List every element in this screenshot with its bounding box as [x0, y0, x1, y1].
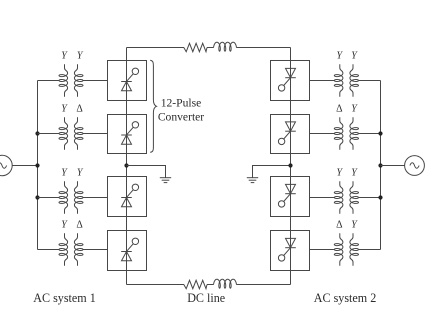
wire left bus to T2 primary [38, 133, 60, 135]
thyristor valve V3 [121, 184, 138, 207]
transformer T8 primary winding [350, 233, 359, 265]
wire top DC right [236, 47, 290, 49]
svg-text:Y: Y [337, 51, 344, 62]
wire valve V7 to T7 secondary [310, 197, 335, 199]
junction right bus / T7 [378, 195, 382, 199]
caption DC line [187, 291, 225, 305]
transformer T5 primary winding [350, 64, 359, 96]
wire left bus to T4 primary [38, 249, 60, 251]
transformer T7 primary winding [350, 181, 359, 213]
transformer T2 secondary winding [74, 117, 83, 149]
wire right bus to G2 [381, 165, 405, 167]
thyristor valve V6 [278, 122, 295, 145]
label T2 primary connection Y [61, 104, 68, 115]
wire top DC mid [207, 47, 214, 49]
smoothing reactor top [214, 42, 237, 51]
junction left bus / T3 [35, 195, 39, 199]
transformer T7 secondary winding [334, 181, 343, 213]
label T3 primary connection Y [61, 168, 68, 179]
wire T6 primary to right bus [359, 133, 381, 135]
right converter DC wire [290, 48, 292, 285]
label T7 secondary connection Y [337, 168, 344, 179]
AC source G1 (AC system 1) [0, 155, 12, 175]
label T1 primary connection Y [61, 51, 68, 62]
caption AC system 1 [33, 291, 96, 305]
wire bottom DC right [236, 284, 290, 286]
wire T2 secondary to valve V2 [83, 133, 108, 135]
label T5 secondary connection Y [337, 51, 344, 62]
resistor DC line bottom [184, 280, 207, 288]
svg-text:AC system 1: AC system 1 [33, 291, 96, 305]
thyristor valve V2 [121, 122, 138, 145]
valve bridge V3 box [108, 177, 147, 217]
transformer T1 primary winding [59, 64, 68, 96]
label T6 secondary connection Δ [336, 104, 343, 115]
transformer T3 primary winding [59, 181, 68, 213]
svg-text:Y: Y [351, 104, 358, 115]
transformer T6 secondary winding [334, 117, 343, 149]
wire G1 to left bus [12, 165, 37, 167]
wire T5 primary to right bus [359, 80, 381, 82]
left converter DC wire [126, 48, 128, 285]
wire left bus to T1 primary [38, 80, 60, 82]
smoothing reactor bottom [214, 279, 237, 288]
label Converter [158, 111, 204, 124]
junction left converter midpoint [124, 163, 128, 167]
ground electrode left [127, 166, 172, 183]
svg-text:Y: Y [351, 51, 358, 62]
wire T1 secondary to valve V1 [83, 80, 108, 82]
svg-text:Y: Y [351, 168, 358, 179]
transformer T6 primary winding [350, 117, 359, 149]
resistor DC line top [184, 43, 207, 51]
thyristor valve V4 [121, 238, 138, 261]
thyristor valve V5 [278, 68, 295, 91]
valve bridge V5 box [271, 61, 310, 101]
wire valve V6 to T6 secondary [310, 133, 335, 135]
valve bridge V6 box [271, 115, 310, 154]
label T8 secondary connection Δ [336, 220, 343, 231]
wire valve V8 to T8 secondary [310, 249, 335, 251]
label T1 secondary connection Y [77, 51, 84, 62]
label T2 secondary connection Δ [76, 104, 83, 115]
transformer T3 secondary winding [74, 181, 83, 213]
thyristor valve V1 [121, 68, 138, 91]
label T4 primary connection Y [61, 220, 68, 231]
wire T4 secondary to valve V4 [83, 249, 108, 251]
thyristor valve V7 [278, 184, 295, 207]
wire bottom DC mid [207, 284, 214, 286]
brace 12-pulse group [150, 60, 156, 152]
svg-text:Δ: Δ [336, 220, 343, 231]
valve bridge V8 box [271, 231, 310, 271]
transformer T8 secondary winding [334, 233, 343, 265]
label T7 primary connection Y [351, 168, 358, 179]
svg-text:12-Pulse: 12-Pulse [161, 96, 202, 109]
svg-text:Y: Y [61, 168, 68, 179]
wire valve V5 to T5 secondary [310, 80, 335, 82]
svg-text:Converter: Converter [158, 111, 204, 124]
svg-text:Y: Y [61, 104, 68, 115]
caption AC system 2 [314, 291, 377, 305]
svg-text:Δ: Δ [336, 104, 343, 115]
wire T8 primary to right bus [359, 249, 381, 251]
junction left bus / source [35, 163, 39, 167]
junction left bus / T2 [35, 131, 39, 135]
svg-text:DC line: DC line [187, 291, 225, 305]
svg-text:Y: Y [61, 220, 68, 231]
wire bottom DC left [127, 284, 185, 286]
transformer T4 primary winding [59, 233, 68, 265]
junction right bus / T6 [378, 131, 382, 135]
svg-text:Y: Y [351, 220, 358, 231]
label T4 secondary connection Δ [76, 220, 83, 231]
thyristor valve V8 [278, 238, 295, 261]
wire T7 primary to right bus [359, 197, 381, 199]
label T5 primary connection Y [351, 51, 358, 62]
AC source G2 (AC system 2) [405, 156, 425, 176]
svg-text:Y: Y [77, 51, 84, 62]
valve bridge V4 box [108, 231, 147, 271]
wire T3 secondary to valve V3 [83, 197, 108, 199]
valve bridge V7 box [271, 177, 310, 217]
transformer T2 primary winding [59, 117, 68, 149]
ground electrode right [247, 166, 291, 183]
svg-text:Y: Y [337, 168, 344, 179]
transformer T1 secondary winding [74, 64, 83, 96]
svg-text:Y: Y [77, 168, 84, 179]
label T3 secondary connection Y [77, 168, 84, 179]
svg-text:Δ: Δ [76, 104, 83, 115]
svg-text:Y: Y [61, 51, 68, 62]
wire left bus to T3 primary [38, 197, 60, 199]
valve bridge V1 box [108, 61, 147, 101]
transformer T4 secondary winding [74, 233, 83, 265]
wire top DC left [127, 47, 185, 49]
left AC bus wire [37, 81, 39, 250]
transformer T5 secondary winding [334, 64, 343, 96]
junction right converter midpoint [288, 163, 292, 167]
junction right bus / source [378, 163, 382, 167]
valve bridge V2 box [108, 115, 147, 154]
label T8 primary connection Y [351, 220, 358, 231]
label T6 primary connection Y [351, 104, 358, 115]
svg-text:AC system 2: AC system 2 [314, 291, 377, 305]
label 12-Pulse [161, 96, 202, 109]
right AC bus wire [380, 81, 382, 250]
svg-text:Δ: Δ [76, 220, 83, 231]
